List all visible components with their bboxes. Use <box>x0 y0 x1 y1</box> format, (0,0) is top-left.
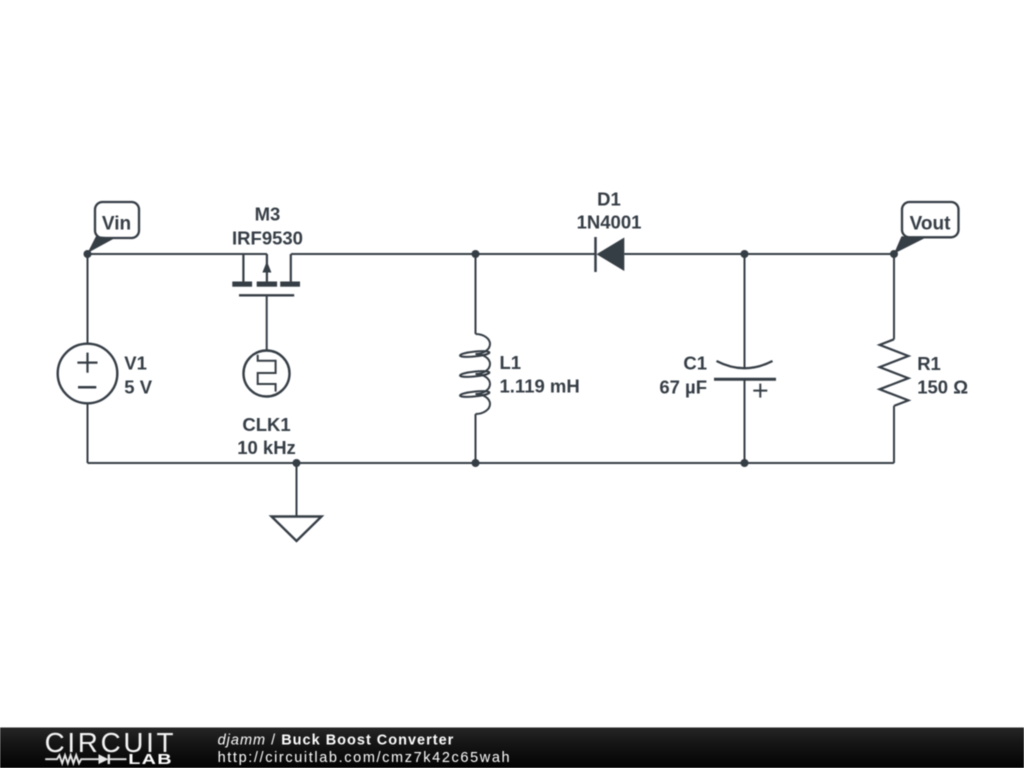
net label Vout <box>894 202 959 254</box>
logo diode triangle <box>99 754 109 764</box>
M3 right stub (drain) <box>290 254 292 282</box>
voltage source V1 <box>58 344 118 404</box>
node: L1 top junction <box>472 250 480 258</box>
svg-text:1N4001: 1N4001 <box>577 211 642 232</box>
wire: top rail from Vin node to M3 <box>88 253 268 255</box>
wire: R1 bottom lead <box>893 406 895 463</box>
net label Vin <box>88 202 140 253</box>
node: C1 top junction <box>741 250 749 258</box>
svg-text:http://circuitlab.com/cmz7k42c: http://circuitlab.com/cmz7k42c65wah <box>218 750 512 766</box>
svg-text:M3: M3 <box>255 203 281 224</box>
svg-text:djamm / Buck Boost Converter: djamm / Buck Boost Converter <box>218 732 455 748</box>
svg-text:D1: D1 <box>597 188 621 209</box>
wire: V1 bottom lead <box>87 403 89 463</box>
wire: bottom rail <box>88 462 895 464</box>
svg-text:LAB: LAB <box>128 750 173 767</box>
wire: L1 bottom lead <box>475 414 477 463</box>
svg-text:C1: C1 <box>683 353 707 374</box>
diode D1 <box>596 237 625 272</box>
capacitor C1 (polarized) <box>714 361 776 398</box>
wire: R1 top lead <box>893 254 895 339</box>
svg-text:V1: V1 <box>124 353 147 374</box>
svg-text:IRF9530: IRF9530 <box>232 227 303 248</box>
svg-text:10 kHz: 10 kHz <box>237 437 296 458</box>
wire: L1 top lead <box>475 254 477 334</box>
node: ground junction <box>293 459 301 467</box>
svg-text:67 µF: 67 µF <box>659 377 707 398</box>
svg-text:5 V: 5 V <box>124 377 152 398</box>
svg-text:R1: R1 <box>917 353 941 374</box>
wire: gate stem to CLK1 <box>266 295 268 350</box>
svg-text:CLK1: CLK1 <box>242 414 290 435</box>
ground <box>272 517 322 542</box>
M3 left stub (source) <box>242 254 244 282</box>
svg-text:L1: L1 <box>500 352 522 373</box>
wire: ground stem <box>296 463 298 517</box>
wire: top rail from D1 anode to Vout node <box>624 253 894 255</box>
transistor M3 (PMOS IRF9530) <box>232 254 300 295</box>
M3 body stub with arrow <box>266 254 268 282</box>
svg-text:Vin: Vin <box>102 214 131 235</box>
wire: C1 top lead <box>744 254 746 368</box>
logo resistor-diode glyph <box>45 754 126 764</box>
wire: V1 top lead <box>87 254 89 344</box>
resistor R1 <box>880 339 909 406</box>
svg-text:1.119 mH: 1.119 mH <box>500 376 580 397</box>
M3 channel bars <box>232 282 252 287</box>
node Vin <box>84 250 92 258</box>
wire: C1 bottom lead <box>744 379 746 463</box>
node Vout <box>890 250 898 258</box>
inductor L1 <box>460 334 490 414</box>
wire: top rail from M3 to D1 cathode bar <box>291 253 596 255</box>
clock source CLK1 <box>244 351 290 397</box>
svg-text:150 Ω: 150 Ω <box>917 377 968 398</box>
node: C1 bottom junction <box>741 459 749 467</box>
svg-text:Vout: Vout <box>910 214 951 235</box>
M3 gate plate <box>239 294 294 296</box>
node: L1 bottom junction <box>472 459 480 467</box>
